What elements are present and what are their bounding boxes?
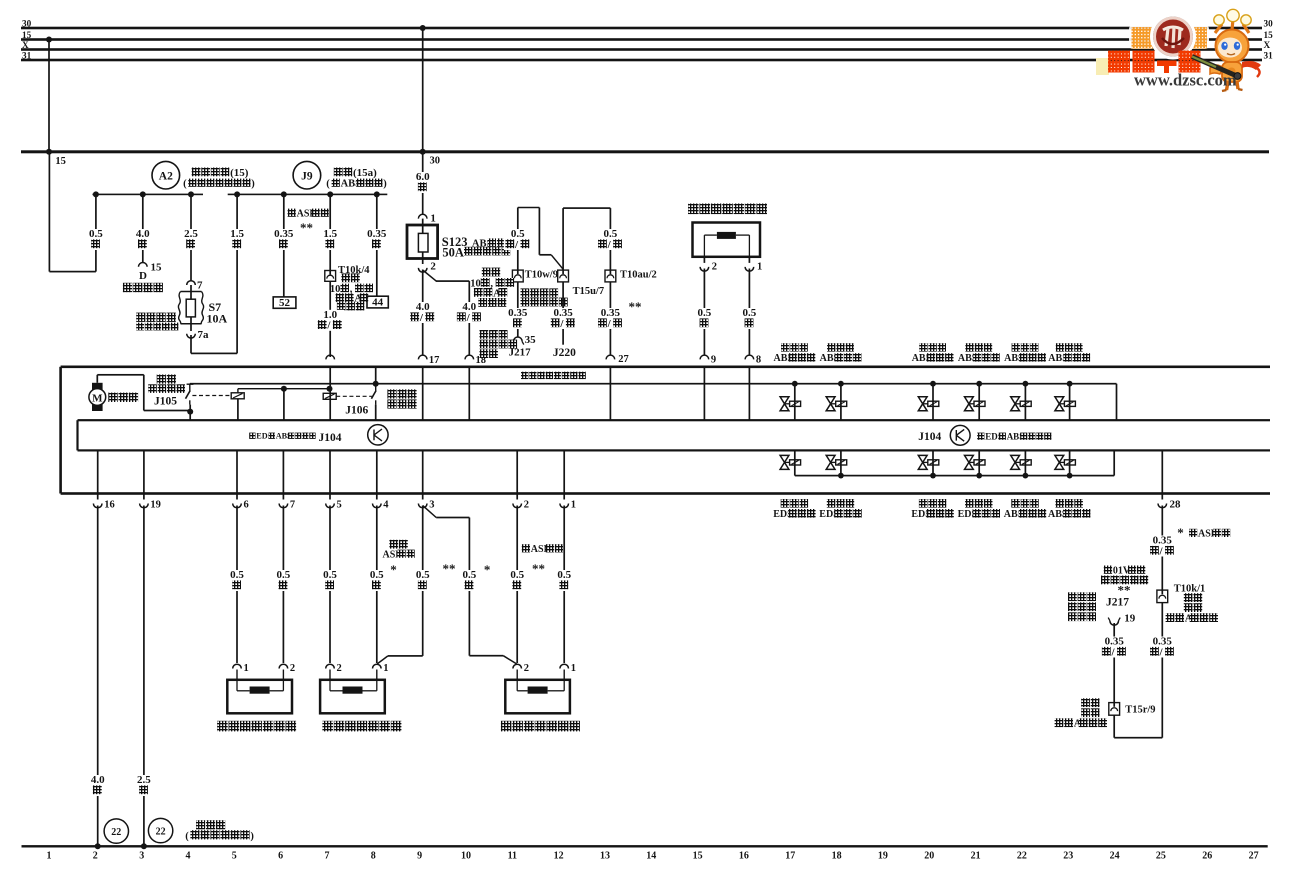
link line between relay coils (238, 388, 330, 389)
svg-text:X: X (22, 40, 29, 50)
svg-text:0.5: 0.5 (463, 569, 477, 581)
label 1.5 white (320, 229, 340, 250)
svg-text:17: 17 (785, 851, 795, 862)
sensor coil element (717, 232, 736, 239)
label 1.0 black/blue (316, 310, 344, 331)
svg-text:15: 15 (55, 156, 66, 167)
svg-text:4: 4 (383, 500, 389, 511)
wire from bus 30 down to line 30 (422, 28, 424, 152)
bus line 30 (21, 27, 1262, 30)
bottom valve return wire (795, 475, 1114, 477)
svg-text:T15r/9: T15r/9 (1125, 705, 1155, 716)
label 0.5 brown (555, 570, 575, 591)
svg-text:**: ** (443, 561, 456, 576)
svg-text:19: 19 (878, 851, 888, 862)
ABS with EDS control unit J104 box (78, 419, 1271, 421)
wire 2.5 brown to ground (143, 506, 145, 847)
svg-text:0.5: 0.5 (323, 569, 337, 581)
label 1.5 white (227, 229, 247, 250)
svg-text:8: 8 (756, 355, 761, 366)
svg-text:2.5: 2.5 (184, 228, 198, 240)
ground point circle 22 (b) (148, 818, 172, 842)
connector T15r/9 plug (1109, 703, 1120, 716)
label 2.5 black (181, 229, 201, 250)
svg-text:): ) (251, 178, 255, 189)
label automatic gearbox ECU (480, 330, 489, 339)
terminal arc 5 (326, 504, 335, 508)
connector T10au/2 plug (605, 270, 616, 282)
wire pin17 inside box (422, 367, 424, 420)
svg-text:1: 1 (571, 663, 576, 674)
feed line 15/30 (21, 150, 1269, 153)
svg-text:10A: 10A (207, 312, 228, 326)
wire pin18 inside box (468, 367, 470, 420)
wire pin9 inside box (704, 367, 706, 420)
svg-text:J9: J9 (301, 171, 313, 183)
svg-text:T15u/7: T15u/7 (573, 286, 605, 297)
label 0.5 black with ** (413, 570, 433, 591)
svg-text:0.5: 0.5 (89, 228, 103, 240)
svg-text:3: 3 (139, 851, 144, 862)
svg-text:2: 2 (93, 851, 98, 862)
label return pump relay J105 (157, 375, 166, 384)
terminal box 52 (273, 297, 296, 308)
svg-text:*: * (390, 562, 397, 577)
label 0.5 black with ** (508, 570, 528, 591)
fuse element S7 (186, 299, 195, 317)
wire pin 19 from J104 through box edge (143, 450, 145, 499)
right rear sensor pin arcs (513, 664, 522, 668)
return pump motor V39 (92, 383, 103, 411)
label 0.5 black with * (367, 570, 387, 591)
svg-text:**: ** (532, 561, 545, 576)
wire 0.5 green/black via T15u/7 to J220 (563, 207, 610, 209)
bus line 31 (21, 59, 1262, 62)
sensor pin 2 arc (704, 257, 706, 263)
svg-text:**: ** (300, 220, 313, 235)
svg-text:1: 1 (383, 663, 388, 674)
svg-text:0.5: 0.5 (557, 569, 571, 581)
svg-text:18: 18 (832, 851, 842, 862)
watermark magnifier with xin character (1152, 16, 1194, 58)
svg-text:0.35: 0.35 (508, 307, 528, 319)
wire 1.0 black/blue into fuel injection ECU (329, 281, 331, 357)
svg-text:2: 2 (337, 663, 342, 674)
bus line 15 (21, 38, 1262, 41)
valve bottom row: LF EDS outlet valve (840, 450, 842, 475)
connector T10w/9 plug (512, 270, 523, 282)
terminal arc 7a of fuse S7 (187, 334, 196, 338)
svg-text:52: 52 (279, 297, 291, 309)
svg-text:19: 19 (150, 500, 161, 511)
terminal box 44 (367, 296, 388, 308)
terminal arc 1 (560, 504, 569, 508)
bus line X (21, 48, 1262, 51)
svg-text:2.5: 2.5 (137, 774, 151, 786)
junction dot J106 coil top (327, 386, 333, 392)
terminal arc 3 (418, 504, 427, 508)
svg-text:J104: J104 (918, 431, 941, 443)
terminal arc 1 of S123 (418, 214, 427, 218)
terminal arc 19 of J217 (1110, 621, 1119, 625)
svg-text:6: 6 (244, 500, 249, 511)
label 0.35 yellow/blue (1149, 637, 1177, 658)
svg-text:22: 22 (1017, 851, 1027, 862)
terminal arc 4 (373, 504, 382, 508)
label LF ABS outlet valve N102 (827, 343, 835, 351)
svg-text:J104: J104 (319, 432, 342, 444)
svg-text:J106: J106 (345, 405, 368, 417)
note with ASR (522, 544, 530, 552)
svg-text:7a: 7a (198, 329, 210, 341)
right rear wheel speed sensor (505, 680, 570, 714)
wire J106 coil feed inside box (329, 367, 331, 420)
svg-text:15: 15 (22, 30, 32, 40)
wire pin 7 from J104 through box edge (283, 450, 285, 499)
svg-text:2: 2 (524, 663, 529, 674)
label RF ABS outlet valve N100 (1056, 343, 1064, 351)
wire from bus 15 down to line 15 (48, 40, 50, 152)
svg-text:7: 7 (290, 500, 295, 511)
label 4.0 red/black (409, 302, 437, 323)
label fuel injection ECU (521, 372, 528, 379)
junction dot coil link (281, 386, 287, 392)
connector circle A2 (152, 161, 180, 189)
label 2.5 brown (134, 775, 154, 796)
wire 0.5 black from rail A2 to left riser (95, 194, 97, 271)
wire 2.5 black to fuse S7 (190, 194, 192, 281)
wire pin27 inside box (610, 367, 612, 420)
svg-text:**: ** (1118, 583, 1131, 598)
svg-text:J105: J105 (154, 396, 177, 408)
label LR ABS outlet valve (1011, 499, 1020, 508)
svg-text:D: D (139, 270, 147, 282)
svg-text:5: 5 (232, 851, 237, 862)
relay J106 contact solenoid valve relay (375, 367, 377, 384)
wire 0.5 black pin6 to LF sensor (236, 506, 238, 664)
label left rear wheel speed sensor (688, 204, 699, 215)
label 4.0 red/black (455, 302, 483, 323)
svg-text:22: 22 (156, 827, 166, 838)
terminal arc 28 (1158, 504, 1167, 508)
label 0.5 black (227, 570, 247, 591)
note vehicles with ASR (288, 209, 296, 217)
label 0.5 black with * (460, 570, 480, 591)
svg-text:16: 16 (739, 851, 749, 862)
label LF ABS inlet valve N101 (781, 343, 789, 351)
label plug 10pt blue right A pillar (482, 268, 491, 277)
label LR ABS inlet valve (1056, 499, 1065, 508)
label 0.5 green (274, 570, 294, 591)
bottom rail / current track (22, 845, 1268, 847)
wire pin3 jog branch to RR sensor (423, 506, 437, 518)
terminal arc 18 into ECU box (465, 355, 474, 359)
diagnostic K symbol circle left (368, 425, 388, 445)
diagnostic K symbol circle right (950, 425, 970, 445)
wire joining both yellow/blue branches (1113, 715, 1115, 738)
terminal arc 16 (93, 504, 102, 508)
svg-text:0.35: 0.35 (274, 228, 294, 240)
svg-text:4: 4 (186, 851, 191, 862)
svg-text:17: 17 (429, 355, 440, 366)
svg-text:8: 8 (371, 851, 376, 862)
svg-text:*: * (484, 562, 491, 577)
svg-text:1: 1 (244, 663, 249, 674)
terminal arc 6 (233, 504, 242, 508)
wire 0.35 white to terminal 44 (376, 194, 378, 296)
terminal arc 9 into ECU box (700, 355, 709, 359)
wire 0.35 yellow/blue to T10k/1 (1161, 506, 1163, 591)
wire 6.0 red from line30 to fuse S123 (422, 152, 424, 215)
svg-text:10: 10 (330, 284, 341, 295)
dashed actuate link J106 (336, 395, 372, 397)
sensor pin 1 arc (749, 257, 751, 263)
terminal arc into ECU box (326, 355, 335, 359)
wire 4.0 black to ignition switch (142, 194, 144, 262)
label 0.5 green/black (504, 229, 532, 250)
wire 0.35 green/black to pin 27 (610, 282, 612, 355)
svg-text:0.5: 0.5 (698, 307, 712, 319)
svg-text:3: 3 (429, 500, 434, 511)
label RR ABS outlet valve N134 (965, 343, 973, 351)
svg-text:0.5: 0.5 (510, 569, 524, 581)
right front sensor pin arcs (326, 664, 335, 668)
label RF EDS outlet valve (781, 499, 790, 508)
wire J105 to J104 (189, 405, 191, 421)
valve top row: RR ABS inlet valve N133 (930, 381, 936, 387)
wire 0.5 green/black with loop to T10w/9 (517, 208, 519, 271)
left front sensor pin arcs (233, 664, 242, 668)
junction dot J106 top (373, 381, 379, 387)
valve top row: RF ABS inlet valve N99 (1023, 381, 1029, 387)
svg-text:10: 10 (461, 851, 471, 862)
label plug brown right A pillar T15r/9 (1080, 697, 1102, 708)
wire pin 5 from J104 through box edge (329, 450, 331, 499)
terminal arc 19 (140, 504, 149, 508)
svg-text:(: ( (326, 178, 330, 189)
svg-text:): ) (383, 178, 387, 189)
svg-text:31: 31 (1264, 50, 1274, 60)
svg-text:1: 1 (757, 262, 762, 273)
svg-text:7: 7 (325, 851, 330, 862)
wire from fuse 7a to 1.5 white riser (190, 335, 192, 353)
svg-text:T10w/9: T10w/9 (525, 270, 558, 281)
svg-text:31: 31 (22, 51, 32, 61)
svg-text:10: 10 (470, 278, 481, 289)
label 0.35 yellow/blue (1149, 536, 1177, 557)
svg-text:30: 30 (1264, 18, 1274, 28)
label left front wheel speed sensor (217, 721, 228, 732)
wire motor to J105 contact (96, 375, 98, 383)
svg-text:4.0: 4.0 (136, 228, 150, 240)
junction dot line30 x423 (420, 149, 426, 155)
junction dot ground 16 (95, 843, 101, 849)
terminal 35 of J217 automatic gearbox ECU (514, 337, 523, 341)
wire 0.35 green/black to J220 (562, 282, 564, 345)
left front wheel speed sensor (227, 680, 292, 714)
supply line from J105 to J106 and valves (190, 383, 1117, 385)
wire coil link to J104 (283, 389, 285, 421)
svg-text:16: 16 (104, 500, 115, 511)
branch wire to pin 18 (423, 271, 436, 282)
svg-text:24: 24 (1110, 851, 1120, 862)
fuse S7 10A on fuse bracket (181, 292, 202, 324)
fuel injection ECU / ABS ECU outer box (61, 366, 1270, 369)
label return pump (108, 393, 117, 402)
svg-text:7: 7 (197, 280, 203, 292)
svg-text:2: 2 (712, 262, 717, 273)
svg-text:27: 27 (1249, 851, 1259, 862)
label 4.0 black (133, 229, 153, 250)
svg-text:(: ( (185, 831, 189, 842)
svg-text:X: X (1264, 40, 1271, 50)
wire 0.35 yellow to J217 pin 35 (517, 282, 519, 337)
valve bottom row: LR ABS inlet valve (1069, 450, 1071, 475)
label fuse on fuse bracket (136, 313, 145, 322)
terminal arc 15 of ignition switch D (139, 262, 148, 266)
valve bottom row: LF EDS switch valve (978, 450, 980, 475)
label RF EDS switch valve (919, 499, 928, 508)
wire pin 1 from J104 through box edge (563, 450, 565, 499)
wire 0.5 green pin7 to LF sensor (283, 506, 285, 664)
svg-text:J220: J220 (553, 347, 576, 359)
svg-text:M: M (92, 392, 103, 404)
connector T10k/4 in-line plug (325, 271, 336, 282)
rail J9 (228, 194, 388, 196)
svg-text:25: 25 (1156, 851, 1166, 862)
wire 0.35 white to terminal 52 (283, 194, 285, 297)
valve top row: LF ABS outlet valve N102 (838, 381, 844, 387)
svg-text:26: 26 (1202, 851, 1212, 862)
relay coil J105 (237, 389, 238, 393)
svg-text:12: 12 (554, 851, 564, 862)
svg-text:1: 1 (571, 500, 576, 511)
wire pin 6 from J104 through box edge (236, 450, 238, 499)
svg-text:15: 15 (693, 851, 703, 862)
svg-text:4.0: 4.0 (91, 774, 105, 786)
relay coil J106 (323, 393, 336, 399)
wire 0.5 yellow pin5 to RF sensor (329, 506, 331, 664)
terminal arc 2 (513, 504, 522, 508)
wire 0.5 green/black to T10au/2 (610, 208, 612, 270)
svg-text:0.5: 0.5 (277, 569, 291, 581)
svg-text:(: ( (183, 178, 187, 189)
terminal arc 7 of fuse S7 (187, 281, 196, 285)
label LF EDS outlet valve (827, 499, 836, 508)
note without ASR (389, 540, 398, 549)
watermark mascot robot (1192, 9, 1261, 91)
fuse S123 ABS control unit 50A (407, 225, 438, 259)
wire 0.35 yellow/blue from J217-19 (1113, 623, 1115, 703)
svg-text:35: 35 (525, 334, 537, 346)
watermark logo zhao xin pian (1129, 25, 1155, 49)
wire 0.5 brown pin1 to RR sensor (563, 506, 565, 664)
label 0.5 black (695, 308, 715, 329)
right front wheel speed sensor (320, 680, 385, 714)
wire 0.5 black sensor to pin 9 (704, 269, 706, 356)
svg-text:T10au/2: T10au/2 (620, 270, 657, 281)
svg-text:*: * (1177, 525, 1184, 540)
relay J105 contact (187, 384, 194, 385)
label 0.5 black (86, 229, 106, 250)
label 4.0 brown (88, 775, 108, 796)
label 0.35 white (364, 229, 389, 250)
label with EDS ABS ECU (right) (977, 433, 984, 440)
valve bottom row: RF EDS outlet valve (794, 450, 796, 475)
terminal arc 8 into ECU box (745, 355, 754, 359)
junction dot ground 19 (141, 843, 147, 849)
watermark wei ku yi xia red text (1096, 58, 1109, 75)
wire pin 16 from J104 through box edge (97, 450, 99, 499)
label 0.35 white (271, 229, 296, 250)
wire 0.5 white sensor to pin 8 (749, 269, 751, 356)
svg-text:50A: 50A (442, 245, 464, 259)
dashed actuate link J105 (192, 395, 230, 397)
svg-text:20: 20 (924, 851, 934, 862)
svg-text:21: 21 (971, 851, 981, 862)
svg-text:0.5: 0.5 (416, 569, 430, 581)
label 0.35 yellow (505, 308, 530, 329)
svg-text:(15a): (15a) (353, 167, 377, 179)
svg-text:30: 30 (430, 156, 441, 167)
connector T10k/1 plug (1157, 590, 1168, 603)
label 0.35 yellow/blue (1100, 637, 1128, 658)
label A2: positive connection (15), in dash panel harness (192, 168, 201, 177)
connector circle J9 (293, 161, 321, 189)
svg-text:,: , (350, 284, 353, 295)
terminal arc 27 into ECU box (606, 355, 615, 359)
label 0.35 green/black (549, 308, 577, 329)
svg-text:1: 1 (430, 213, 436, 225)
svg-text:0.5: 0.5 (743, 307, 757, 319)
label LF EDS switch valve (965, 499, 974, 508)
valve top row: RF ABS outlet valve N100 (1067, 381, 1073, 387)
ground point circle 22 (a) (104, 819, 128, 843)
valve bottom row: LR ABS outlet valve (1025, 450, 1027, 475)
svg-text:www.dzsc.com: www.dzsc.com (1134, 71, 1237, 90)
left rear wheel speed sensor G44 (693, 223, 761, 257)
svg-text:2: 2 (524, 500, 529, 511)
junction dot line15 x49 (46, 149, 52, 155)
label 6.0 red (413, 172, 433, 193)
label automatic gearbox ECU (1068, 592, 1077, 601)
svg-text:(15): (15) (230, 167, 249, 179)
valve top row: LF ABS inlet valve N101 (792, 381, 798, 387)
svg-text:1.5: 1.5 (230, 228, 244, 240)
svg-text:0.5: 0.5 (370, 569, 384, 581)
svg-text:5: 5 (337, 500, 342, 511)
label right rear wheel speed sensor (501, 721, 512, 732)
wire 1.5 white to connector T10k/4 (329, 194, 331, 270)
svg-text:28: 28 (1170, 499, 1182, 511)
svg-text:27: 27 (618, 354, 629, 365)
terminal arc 7 (279, 504, 288, 508)
svg-text:6.0: 6.0 (416, 171, 430, 183)
terminal arc 2 of S123 (418, 268, 427, 272)
label right front wheel speed sensor (322, 721, 333, 732)
junction dot on bus 30 (420, 25, 426, 31)
label 0.35 green/black (597, 308, 625, 329)
junction dot on bus 15 (46, 37, 52, 43)
wire 1.5 white from rail J9 (236, 194, 238, 353)
svg-text:13: 13 (600, 851, 610, 862)
terminal arc 17 into ECU box (418, 355, 427, 359)
svg-text:1: 1 (47, 851, 52, 862)
svg-text:44: 44 (372, 297, 384, 309)
svg-text:2: 2 (430, 260, 436, 272)
svg-text:15: 15 (151, 262, 163, 274)
svg-text:2: 2 (290, 663, 295, 674)
